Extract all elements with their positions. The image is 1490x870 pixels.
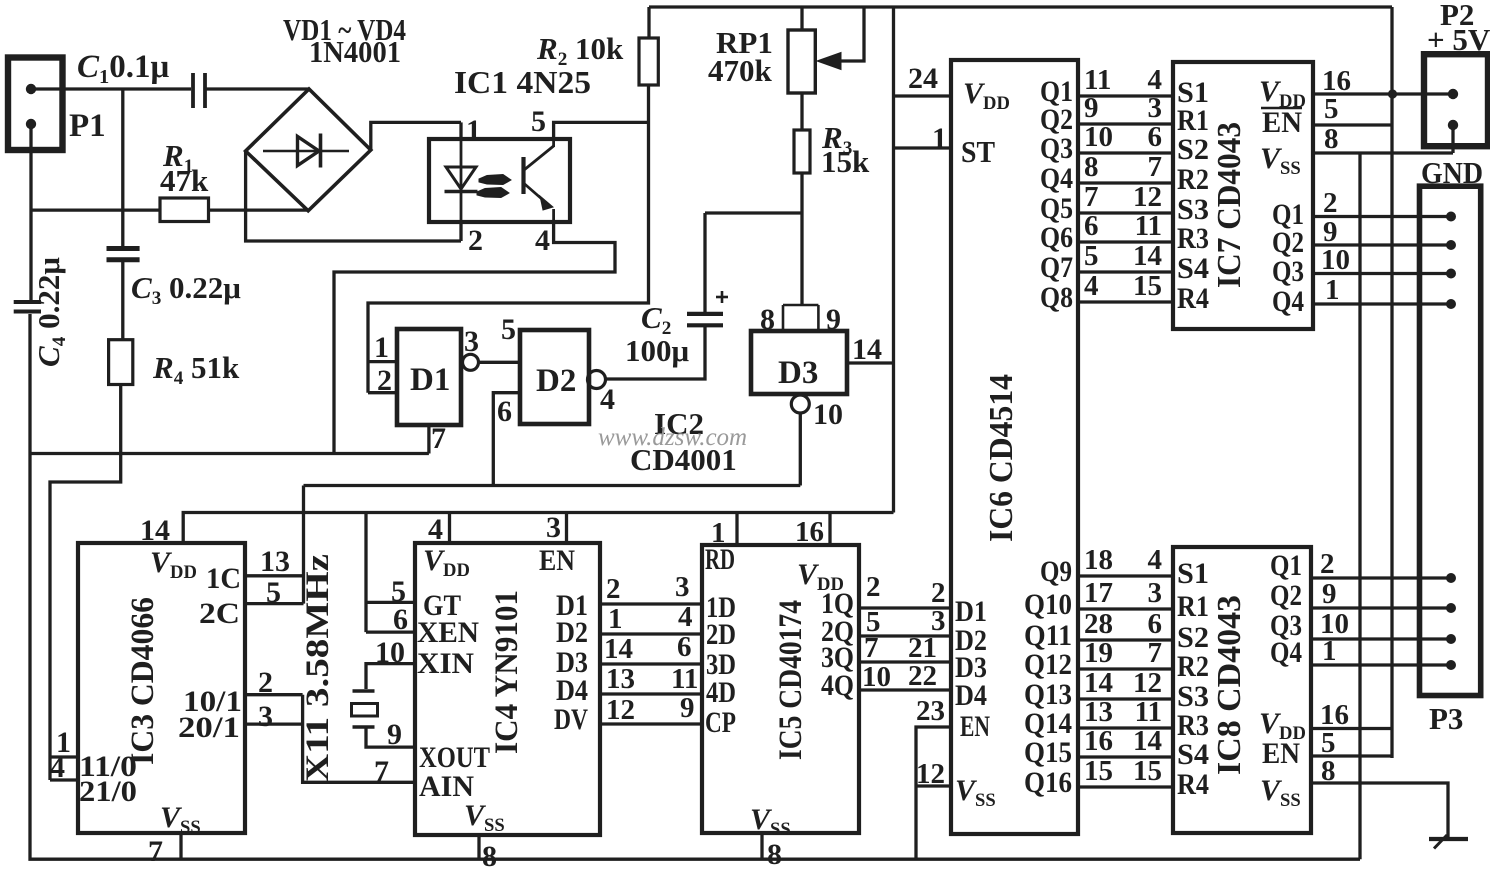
svg-text:2: 2 [866,571,881,603]
svg-text:6: 6 [393,603,408,636]
svg-text:6: 6 [1084,210,1099,242]
svg-text:C3 0.22μ: C3 0.22μ [131,270,241,309]
svg-text:10: 10 [862,661,891,693]
svg-text:1: 1 [932,122,947,155]
svg-text:Q6: Q6 [1040,221,1073,254]
svg-text:IC7 CD4043: IC7 CD4043 [1211,122,1248,288]
svg-text:13: 13 [606,663,635,695]
svg-text:Q10: Q10 [1024,588,1072,621]
svg-text:14: 14 [140,514,170,547]
svg-text:7: 7 [1148,151,1163,183]
svg-text:S1: S1 [1177,557,1209,590]
svg-text:9: 9 [826,303,841,336]
svg-text:S4: S4 [1177,252,1209,285]
svg-text:Q8: Q8 [1040,281,1073,314]
svg-text:Q9: Q9 [1040,555,1072,588]
svg-text:Q2: Q2 [1270,579,1302,612]
svg-text:9: 9 [680,692,695,724]
svg-text:8: 8 [1084,151,1099,183]
svg-text:www.dzsw.com: www.dzsw.com [598,424,747,451]
svg-text:IC1 4N25: IC1 4N25 [454,64,591,100]
svg-text:IC5 CD40174: IC5 CD40174 [773,600,809,760]
svg-text:IC6 CD4514: IC6 CD4514 [983,374,1020,542]
svg-text:Q4: Q4 [1040,162,1073,195]
svg-text:15: 15 [1133,755,1162,787]
svg-text:2: 2 [1323,187,1338,219]
svg-text:IC4 YN9101: IC4 YN9101 [489,590,525,754]
svg-text:RD: RD [705,543,735,576]
svg-text:5: 5 [531,105,546,138]
svg-text:X11 3.58MHz: X11 3.58MHz [300,554,336,782]
svg-text:R4: R4 [1177,768,1209,801]
svg-text:1: 1 [1322,635,1337,667]
svg-text:10: 10 [1084,121,1113,153]
svg-text:6: 6 [1148,608,1163,640]
svg-text:47k: 47k [160,163,209,198]
svg-text:3: 3 [1148,92,1163,124]
svg-text:14: 14 [1133,725,1162,757]
svg-text:8: 8 [1324,123,1339,155]
svg-text:28: 28 [1084,608,1113,640]
svg-text:10: 10 [375,636,405,669]
svg-text:7: 7 [864,632,879,664]
svg-text:5: 5 [501,313,516,346]
svg-text:4D: 4D [706,676,736,709]
svg-text:16: 16 [795,516,824,548]
svg-text:14: 14 [852,333,882,366]
svg-text:R1: R1 [1177,590,1209,623]
svg-text:4: 4 [1084,270,1099,302]
svg-text:8: 8 [482,840,497,870]
svg-text:7: 7 [1084,181,1099,213]
svg-text:11: 11 [1135,210,1162,242]
svg-text:2: 2 [377,364,392,397]
svg-text:1C: 1C [206,562,241,595]
svg-text:Q16: Q16 [1024,766,1072,799]
svg-text:Q15: Q15 [1024,736,1072,769]
svg-text:7: 7 [148,835,163,868]
svg-text:5: 5 [1084,240,1099,272]
svg-text:IC3 CD4066: IC3 CD4066 [125,597,161,765]
svg-text:XEN: XEN [417,616,479,649]
svg-text:19: 19 [1084,637,1113,669]
svg-text:8: 8 [760,303,775,336]
svg-text:4Q: 4Q [821,669,854,702]
svg-text:12: 12 [916,758,945,790]
svg-text:2: 2 [606,573,621,605]
svg-text:Q7: Q7 [1040,251,1073,284]
svg-text:GND: GND [1421,155,1483,190]
svg-text:2C: 2C [199,597,240,630]
svg-text:2: 2 [468,224,483,257]
svg-text:10: 10 [1321,244,1350,276]
svg-text:3: 3 [675,571,690,603]
svg-text:17: 17 [1084,577,1113,609]
svg-text:C4 0.22μ: C4 0.22μ [31,257,70,367]
svg-text:C10.1μ: C10.1μ [77,49,169,88]
svg-text:D1: D1 [410,362,450,398]
svg-text:7: 7 [431,422,446,455]
svg-text:2: 2 [1320,548,1335,580]
svg-text:20/1: 20/1 [178,711,240,744]
svg-text:P1: P1 [69,108,106,144]
svg-text:10: 10 [813,398,843,431]
svg-text:16: 16 [1084,725,1113,757]
svg-text:22: 22 [908,660,937,692]
svg-text:Q3: Q3 [1272,255,1304,288]
svg-text:D2: D2 [536,363,576,399]
svg-text:ST: ST [961,134,995,169]
svg-text:18: 18 [1084,544,1113,576]
svg-text:4: 4 [50,751,65,784]
svg-text:1N4001: 1N4001 [309,34,401,69]
svg-text:3: 3 [1148,577,1163,609]
svg-text:R2: R2 [1177,650,1209,683]
svg-text:Q3: Q3 [1040,132,1073,165]
svg-text:R2: R2 [1177,163,1209,196]
svg-text:3: 3 [546,511,561,544]
svg-text:4: 4 [678,601,693,633]
svg-text:6: 6 [497,395,512,428]
svg-text:EN: EN [539,544,575,577]
svg-text:1: 1 [374,331,389,364]
svg-text:D3: D3 [778,355,818,391]
svg-text:Q12: Q12 [1024,648,1072,681]
svg-text:Q4: Q4 [1270,636,1302,669]
svg-text:12: 12 [1133,181,1162,213]
svg-text:24: 24 [908,62,938,95]
svg-text:3: 3 [464,325,479,358]
svg-text:EN: EN [960,710,990,743]
svg-text:P3: P3 [1429,701,1463,736]
svg-text:6: 6 [677,631,692,663]
svg-text:6: 6 [1148,121,1163,153]
svg-text:9: 9 [1084,92,1099,124]
svg-text:4: 4 [535,224,550,257]
svg-text:1: 1 [466,114,481,147]
svg-text:11: 11 [1135,696,1162,728]
svg-text:Q4: Q4 [1272,285,1304,318]
svg-text:S2: S2 [1177,133,1209,166]
svg-text:R2 10k: R2 10k [536,31,624,70]
svg-text:5: 5 [1324,93,1339,125]
svg-text:4: 4 [1148,544,1163,576]
svg-text:1: 1 [608,603,623,635]
svg-text:IC8 CD4043: IC8 CD4043 [1211,595,1248,775]
svg-text:1: 1 [1325,274,1340,306]
svg-text:EN: EN [1262,106,1302,139]
svg-text:14: 14 [604,633,633,665]
svg-text:21/0: 21/0 [79,775,137,808]
svg-text:15k: 15k [821,144,870,179]
svg-text:14: 14 [1133,240,1162,272]
svg-text:4: 4 [600,383,615,416]
svg-text:470k: 470k [708,53,773,88]
svg-text:8: 8 [767,838,782,870]
svg-text:CP: CP [705,706,736,739]
svg-text:2D: 2D [706,618,736,651]
svg-text:15: 15 [1133,270,1162,302]
svg-text:3: 3 [258,700,273,733]
svg-text:12: 12 [606,694,635,726]
svg-text:D2: D2 [556,616,588,649]
svg-text:D4: D4 [955,679,987,712]
svg-text:12: 12 [1133,667,1162,699]
svg-text:4: 4 [428,513,443,546]
svg-text:8: 8 [1321,755,1336,787]
svg-text:+ 5V: + 5V [1427,22,1490,57]
svg-text:EN: EN [1262,737,1300,770]
svg-text:R3: R3 [1177,222,1209,255]
svg-text:7: 7 [1148,637,1163,669]
svg-text:XIN: XIN [417,647,474,680]
svg-text:11: 11 [671,663,698,695]
svg-text:13: 13 [260,545,290,578]
svg-text:DV: DV [554,703,588,736]
svg-text:2: 2 [258,666,273,699]
svg-text:R4: R4 [1177,282,1209,315]
svg-text:23: 23 [916,695,945,727]
svg-text:9: 9 [387,718,402,751]
svg-text:5: 5 [266,576,281,609]
svg-text:R4 51k: R4 51k [152,350,240,389]
svg-text:100μ: 100μ [625,333,690,368]
svg-text:Q1: Q1 [1270,549,1302,582]
svg-text:15: 15 [1084,755,1113,787]
svg-text:9: 9 [1322,578,1337,610]
svg-text:13: 13 [1084,696,1113,728]
svg-text:7: 7 [374,755,389,788]
svg-text:S4: S4 [1177,738,1209,771]
svg-text:14: 14 [1084,667,1113,699]
